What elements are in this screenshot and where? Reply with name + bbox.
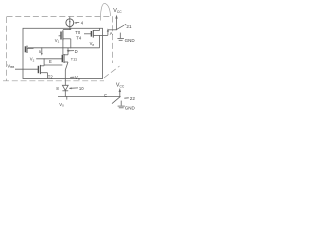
svg-text:VCC: VCC — [113, 8, 122, 14]
svg-text:T4: T4 — [76, 36, 82, 41]
svg-text:8: 8 — [56, 86, 59, 91]
svg-text:GND: GND — [125, 38, 136, 43]
svg-text:21: 21 — [126, 24, 132, 29]
svg-text:T0: T0 — [75, 30, 81, 35]
svg-text:V2: V2 — [30, 57, 35, 63]
svg-text:C: C — [104, 93, 107, 98]
svg-text:V3: V3 — [75, 75, 80, 81]
svg-text:A: A — [110, 31, 113, 36]
svg-text:10: 10 — [79, 86, 84, 91]
svg-text:V0: V0 — [59, 102, 64, 108]
svg-text:22: 22 — [130, 96, 136, 101]
svg-text:T11: T11 — [71, 58, 77, 62]
svg-text:VCC: VCC — [116, 82, 125, 88]
svg-text:GND: GND — [125, 106, 136, 111]
svg-text:4: 4 — [81, 20, 84, 25]
svg-text:V1: V1 — [55, 38, 60, 44]
svg-text:VBB: VBB — [7, 63, 14, 69]
svg-text:E: E — [49, 59, 52, 64]
svg-text:T2: T2 — [48, 74, 54, 79]
svg-text:D: D — [75, 49, 78, 54]
svg-text:V8: V8 — [90, 41, 95, 47]
